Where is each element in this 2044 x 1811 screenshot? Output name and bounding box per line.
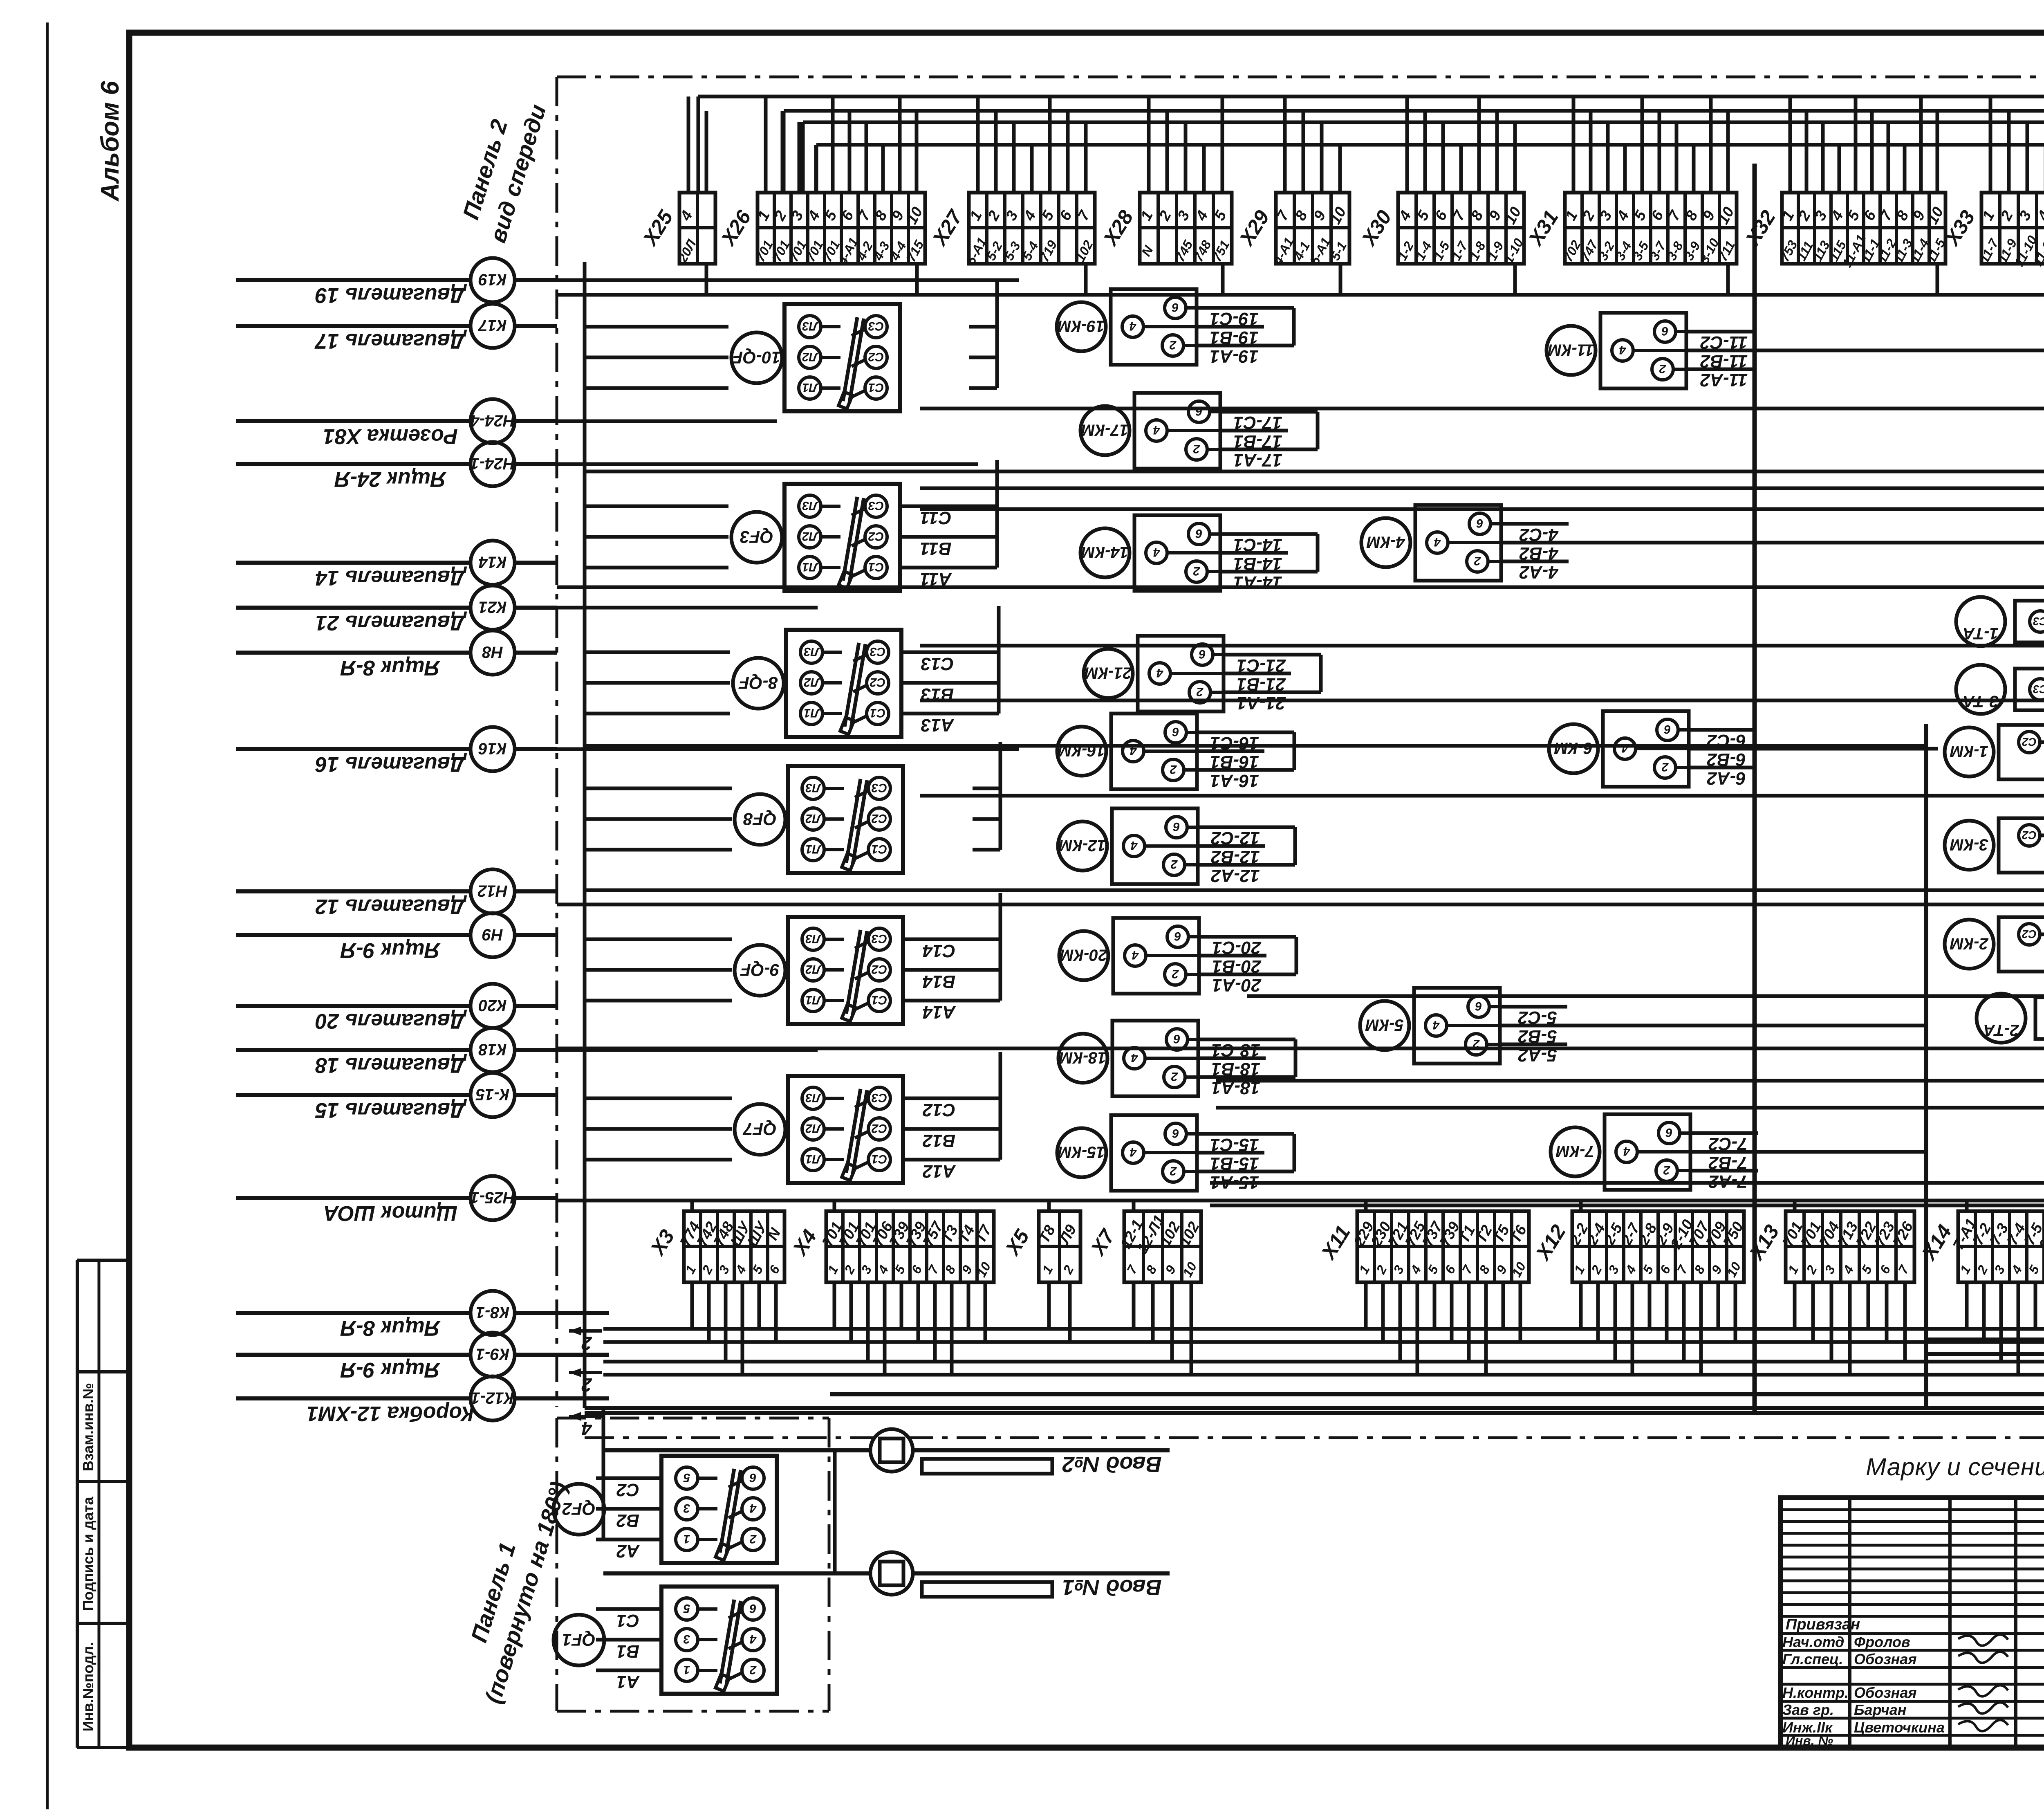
- svg-text:К18: К18: [478, 1041, 507, 1059]
- svg-text:11-А2: 11-А2: [1700, 370, 1748, 390]
- svg-text:4: 4: [1621, 741, 1629, 755]
- svg-text:Л3: Л3: [802, 319, 818, 333]
- svg-text:Л3: Л3: [805, 1091, 822, 1104]
- svg-text:2: 2: [1193, 442, 1200, 456]
- svg-text:QF8: QF8: [743, 809, 777, 829]
- svg-text:2: 2: [1169, 338, 1177, 352]
- svg-text:QF2: QF2: [562, 1499, 596, 1519]
- svg-text:17-КМ: 17-КМ: [1080, 421, 1128, 439]
- svg-text:2: 2: [1170, 763, 1177, 776]
- svg-text:Н25-1: Н25-1: [471, 1189, 515, 1207]
- svg-text:18-КМ: 18-КМ: [1058, 1049, 1106, 1067]
- svg-text:4: 4: [749, 1501, 757, 1515]
- svg-text:4: 4: [1129, 319, 1136, 333]
- svg-text:Л3: Л3: [805, 781, 822, 794]
- svg-text:В2: В2: [616, 1510, 639, 1530]
- svg-text:10-QF: 10-QF: [732, 348, 781, 367]
- svg-text:Инв.№подл.: Инв.№подл.: [80, 1642, 96, 1732]
- svg-text:С3: С3: [870, 645, 886, 658]
- svg-text:Л2: Л2: [805, 963, 822, 976]
- svg-text:Л2: Л2: [805, 1122, 822, 1135]
- svg-text:Привязан: Привязан: [1786, 1616, 1860, 1633]
- svg-text:2: 2: [1661, 760, 1669, 774]
- svg-text:20-А1: 20-А1: [1212, 975, 1262, 995]
- svg-text:А1: А1: [616, 1672, 640, 1692]
- svg-text:С2: С2: [872, 963, 888, 976]
- svg-text:4: 4: [1153, 423, 1160, 437]
- svg-text:С1: С1: [616, 1611, 639, 1631]
- svg-text:Подпись и дата: Подпись и дата: [80, 1497, 96, 1611]
- svg-text:С14: С14: [923, 941, 956, 961]
- svg-text:6: 6: [749, 1602, 756, 1615]
- svg-text:С2: С2: [2022, 928, 2037, 940]
- svg-text:К12-1: К12-1: [471, 1389, 514, 1407]
- svg-text:Цветочкина: Цветочкина: [1854, 1719, 1945, 1736]
- svg-text:С2: С2: [616, 1480, 639, 1500]
- svg-text:Л2: Л2: [805, 812, 822, 825]
- svg-text:Марку и сечение проводника: Марку и сечение проводника см. черт ЭМ л…: [1866, 1453, 2044, 1481]
- svg-text:2-КМ: 2-КМ: [1950, 935, 1989, 953]
- svg-text:2: 2: [1170, 857, 1178, 871]
- svg-text:2: 2: [1196, 685, 1204, 698]
- svg-text:С2: С2: [872, 1122, 888, 1135]
- svg-text:В12: В12: [922, 1131, 955, 1151]
- svg-text:Розетка Х81: Розетка Х81: [323, 424, 458, 448]
- svg-text:Л2: Л2: [802, 530, 818, 543]
- svg-text:4: 4: [1432, 1018, 1440, 1032]
- svg-text:С2: С2: [870, 675, 886, 689]
- svg-text:2: 2: [1474, 554, 1481, 568]
- svg-text:Л1: Л1: [805, 1152, 821, 1166]
- svg-text:19-А1: 19-А1: [1210, 346, 1259, 366]
- svg-text:Л3: Л3: [805, 932, 822, 945]
- svg-text:4: 4: [1131, 1051, 1138, 1064]
- svg-text:Щиток ШОА: Щиток ШОА: [323, 1201, 457, 1225]
- svg-text:Нач.отд: Нач.отд: [1782, 1634, 1844, 1650]
- svg-text:11-КМ: 11-КМ: [1547, 341, 1594, 359]
- svg-text:6: 6: [1661, 324, 1668, 338]
- svg-text:Л2: Л2: [804, 675, 820, 689]
- svg-text:Л1: Л1: [805, 993, 821, 1007]
- svg-text:В14: В14: [923, 972, 956, 992]
- svg-text:Л2: Л2: [802, 350, 818, 364]
- svg-text:Н24-4: Н24-4: [471, 412, 515, 430]
- svg-text:6: 6: [1172, 725, 1179, 738]
- svg-text:9-QF: 9-QF: [740, 960, 780, 980]
- svg-text:С3: С3: [872, 1091, 888, 1104]
- svg-text:5-КМ: 5-КМ: [1365, 1016, 1404, 1034]
- svg-text:6: 6: [1195, 527, 1202, 540]
- svg-text:С1: С1: [868, 560, 884, 574]
- svg-text:4: 4: [1156, 666, 1163, 680]
- svg-text:14-А1: 14-А1: [1233, 572, 1282, 592]
- svg-text:Зав гр.: Зав гр.: [1782, 1701, 1834, 1718]
- svg-text:1-КМ: 1-КМ: [1950, 743, 1988, 761]
- svg-text:С3: С3: [872, 781, 888, 794]
- svg-text:Л3: Л3: [802, 499, 818, 512]
- svg-text:Н12: Н12: [477, 882, 507, 900]
- svg-text:Двигатель 20: Двигатель 20: [315, 1009, 467, 1033]
- svg-text:4-КМ: 4-КМ: [1366, 533, 1405, 551]
- svg-text:С1: С1: [872, 993, 887, 1007]
- svg-text:19-КМ: 19-КМ: [1057, 317, 1105, 335]
- svg-text:Барчан: Барчан: [1854, 1701, 1907, 1718]
- svg-text:В1: В1: [616, 1641, 639, 1661]
- svg-text:2: 2: [1193, 564, 1200, 578]
- svg-text:Гл.спец.: Гл.спец.: [1782, 1651, 1843, 1667]
- svg-text:6: 6: [1172, 301, 1179, 314]
- svg-text:Двигатель 17: Двигатель 17: [314, 329, 467, 353]
- svg-text:А12: А12: [922, 1161, 956, 1181]
- svg-text:К8-1: К8-1: [476, 1304, 509, 1322]
- svg-text:С1: С1: [868, 381, 884, 394]
- svg-text:5: 5: [683, 1471, 690, 1484]
- svg-text:Н9: Н9: [482, 926, 503, 944]
- svg-text:Коробка 12-ХМ1: Коробка 12-ХМ1: [307, 1402, 474, 1425]
- svg-text:А2: А2: [616, 1541, 640, 1561]
- svg-text:К17: К17: [478, 316, 507, 334]
- svg-text:6: 6: [1172, 1127, 1179, 1140]
- svg-text:С13: С13: [921, 654, 954, 674]
- svg-text:6: 6: [1174, 929, 1181, 943]
- svg-text:Альбом 6: Альбом 6: [96, 81, 124, 202]
- svg-text:2-ТА: 2-ТА: [1983, 1021, 2019, 1039]
- svg-text:К9-1: К9-1: [476, 1345, 509, 1363]
- svg-text:2: 2: [1171, 1070, 1178, 1083]
- svg-text:Обозная: Обозная: [1854, 1684, 1917, 1701]
- svg-text:Н8: Н8: [482, 643, 503, 661]
- svg-text:С1: С1: [872, 842, 887, 856]
- svg-text:2: 2: [1170, 1164, 1177, 1178]
- svg-text:4: 4: [1130, 839, 1138, 852]
- svg-text:С2: С2: [868, 350, 884, 364]
- svg-text:А14: А14: [923, 1002, 956, 1022]
- svg-text:17-А1: 17-А1: [1233, 450, 1282, 470]
- svg-text:Н.контр.: Н.контр.: [1782, 1684, 1849, 1701]
- svg-text:Двигатель 21: Двигатель 21: [315, 611, 467, 635]
- svg-text:4-А2: 4-А2: [1519, 562, 1559, 582]
- svg-text:С12: С12: [922, 1100, 955, 1120]
- svg-text:К16: К16: [478, 740, 507, 758]
- svg-text:QF1: QF1: [562, 1630, 596, 1649]
- svg-text:А13: А13: [921, 715, 955, 735]
- svg-text:К-15: К-15: [475, 1086, 509, 1104]
- svg-text:3: 3: [683, 1632, 690, 1646]
- svg-text:К14: К14: [478, 553, 507, 571]
- svg-text:6: 6: [1195, 404, 1202, 418]
- svg-text:20-КМ: 20-КМ: [1059, 946, 1107, 964]
- svg-text:6-КМ: 6-КМ: [1554, 739, 1593, 757]
- svg-text:Двигатель 12: Двигатель 12: [315, 895, 467, 918]
- svg-text:С2: С2: [2022, 829, 2037, 842]
- svg-text:С2: С2: [872, 812, 888, 825]
- svg-text:4: 4: [581, 1418, 592, 1439]
- svg-text:12-КМ: 12-КМ: [1058, 837, 1106, 855]
- svg-text:6: 6: [1665, 1126, 1672, 1139]
- svg-text:4: 4: [1132, 948, 1139, 962]
- svg-text:Взам.инв.№: Взам.инв.№: [80, 1383, 96, 1471]
- svg-text:21-КМ: 21-КМ: [1084, 664, 1132, 682]
- svg-text:Л1: Л1: [805, 842, 821, 856]
- svg-text:Двигатель 19: Двигатель 19: [315, 283, 467, 307]
- svg-text:3-КМ: 3-КМ: [1950, 836, 1988, 854]
- svg-text:1: 1: [684, 1663, 690, 1676]
- svg-text:1-ТА: 1-ТА: [1963, 624, 1998, 642]
- svg-text:16-А1: 16-А1: [1210, 771, 1259, 791]
- svg-text:4: 4: [1434, 535, 1441, 549]
- svg-text:7-КМ: 7-КМ: [1555, 1142, 1594, 1160]
- svg-text:21-А1: 21-А1: [1237, 693, 1286, 713]
- svg-text:3: 3: [683, 1501, 690, 1515]
- svg-text:2: 2: [1659, 362, 1666, 375]
- svg-text:6: 6: [1173, 820, 1180, 833]
- svg-text:Н24-1: Н24-1: [471, 455, 515, 473]
- svg-text:14-КМ: 14-КМ: [1080, 543, 1128, 561]
- svg-text:С3: С3: [2033, 683, 2044, 696]
- svg-text:4: 4: [749, 1632, 757, 1646]
- svg-text:Ввод №2: Ввод №2: [1062, 1452, 1162, 1477]
- svg-text:6: 6: [1199, 647, 1206, 661]
- svg-text:Инв. №: Инв. №: [1786, 1733, 1833, 1748]
- svg-text:2: 2: [749, 1532, 757, 1546]
- svg-text:2: 2: [1663, 1163, 1670, 1177]
- svg-text:Ввод №1: Ввод №1: [1062, 1575, 1162, 1600]
- svg-text:С3: С3: [872, 932, 888, 945]
- svg-text:В11: В11: [920, 539, 951, 559]
- svg-text:Ящик 24-Я: Ящик 24-Я: [334, 467, 447, 491]
- svg-text:6: 6: [749, 1471, 756, 1484]
- svg-text:6: 6: [1476, 516, 1483, 530]
- svg-text:С2: С2: [2022, 736, 2037, 748]
- svg-text:6: 6: [1664, 723, 1671, 736]
- svg-text:С1: С1: [870, 706, 885, 720]
- svg-text:15-КМ: 15-КМ: [1057, 1143, 1105, 1161]
- svg-text:С3: С3: [2033, 615, 2044, 628]
- svg-text:4: 4: [1623, 1144, 1630, 1158]
- svg-text:4: 4: [1619, 343, 1626, 357]
- svg-text:Ящик 9-Я: Ящик 9-Я: [340, 1358, 441, 1382]
- svg-text:4: 4: [1130, 1145, 1137, 1159]
- svg-text:QF7: QF7: [743, 1119, 777, 1139]
- svg-text:2: 2: [1172, 967, 1179, 981]
- svg-text:1: 1: [684, 1532, 690, 1546]
- svg-text:Л1: Л1: [802, 560, 818, 574]
- svg-text:6: 6: [1173, 1032, 1180, 1046]
- svg-text:С2: С2: [868, 530, 884, 543]
- svg-text:6-А2: 6-А2: [1707, 768, 1746, 788]
- svg-text:К19: К19: [478, 271, 507, 289]
- svg-text:QF3: QF3: [740, 527, 773, 547]
- svg-text:5: 5: [683, 1602, 690, 1615]
- svg-text:Фролов: Фролов: [1854, 1634, 1910, 1650]
- svg-text:Ящик 8-Я: Ящик 8-Я: [340, 1316, 441, 1340]
- svg-text:Двигатель 14: Двигатель 14: [315, 566, 467, 590]
- svg-text:8-QF: 8-QF: [738, 673, 778, 693]
- svg-text:Ящик 8-Я: Ящик 8-Я: [340, 656, 441, 680]
- svg-text:Ящик 9-Я: Ящик 9-Я: [340, 938, 441, 962]
- svg-text:2: 2: [749, 1663, 757, 1676]
- svg-text:Л1: Л1: [802, 381, 818, 394]
- svg-text:Двигатель 18: Двигатель 18: [315, 1053, 467, 1077]
- svg-text:Двигатель 15: Двигатель 15: [315, 1098, 467, 1122]
- svg-text:4: 4: [1153, 545, 1160, 559]
- svg-text:К20: К20: [478, 996, 507, 1014]
- svg-text:Л1: Л1: [804, 706, 820, 720]
- svg-text:Л3: Л3: [804, 645, 820, 658]
- svg-text:Обозная: Обозная: [1854, 1651, 1917, 1667]
- svg-text:К21: К21: [478, 598, 507, 616]
- svg-text:6: 6: [1475, 999, 1482, 1013]
- svg-text:Двигатель 16: Двигатель 16: [315, 752, 467, 776]
- svg-text:12-А2: 12-А2: [1211, 866, 1260, 886]
- svg-text:С1: С1: [872, 1152, 887, 1166]
- svg-text:С3: С3: [868, 499, 884, 512]
- svg-text:С3: С3: [868, 319, 884, 333]
